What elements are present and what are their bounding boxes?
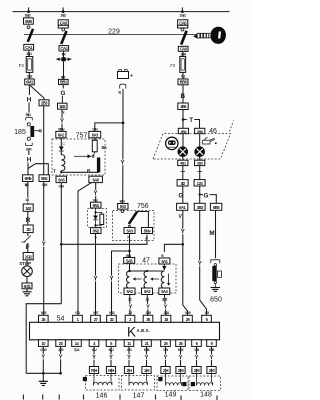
svg-text:J|18: J|18 — [163, 311, 169, 315]
connector box 12B lamp2 col — [194, 180, 205, 186]
svg-text:CA0: CA0 — [180, 47, 188, 52]
svg-text:Y: Y — [42, 242, 46, 248]
svg-text:T: T — [53, 169, 56, 175]
oil can icon — [203, 138, 217, 144]
connector box BB1 col B — [59, 79, 69, 84]
wire valve47 pin1 to K pin2 — [129, 295, 131, 316]
marker square sensor149 — [182, 382, 186, 386]
svg-text:5G|1: 5G|1 — [24, 284, 32, 289]
wire branch col A to connector 2B3 — [30, 86, 44, 101]
wire relay coil bottom to ground loop — [60, 183, 62, 304]
wire H to switch 185 — [28, 103, 30, 118]
wire 756 N to valve 47 — [129, 234, 131, 258]
svg-text:1G|2: 1G|2 — [179, 14, 185, 18]
stop switch — [22, 233, 31, 242]
hydraulic valve unit 47 outline — [119, 264, 177, 293]
warning lamp 2 — [194, 146, 205, 157]
connector box BB6 col F — [178, 79, 188, 85]
wire lamp1 col down — [182, 166, 184, 180]
svg-text:Y: Y — [181, 230, 185, 236]
svg-text:2|H: 2|H — [127, 368, 132, 373]
svg-text:T: T — [189, 118, 193, 124]
svg-text:Y: Y — [164, 304, 168, 310]
connector box sensor146 a — [89, 367, 98, 374]
connector box 1B6 col F — [178, 103, 188, 110]
svg-text:1B|2: 1B|2 — [25, 14, 31, 18]
node junction dot col B — [62, 10, 65, 13]
connector box sensor147 a — [124, 367, 133, 374]
wire col B G to 1B2 — [62, 85, 64, 89]
connector box 501 stop — [22, 277, 32, 289]
bracket top switch 185 — [26, 117, 33, 120]
instrument cluster 46 outline — [153, 134, 231, 160]
svg-text:Y: Y — [59, 354, 63, 360]
wire ground loop lower left — [26, 304, 61, 374]
wire M column down — [215, 210, 217, 258]
wire 756 return bus — [61, 235, 147, 245]
svg-text:7|14: 7|14 — [74, 348, 80, 352]
connector box 3B2 lamp1 col — [177, 180, 188, 186]
solenoid coil 2 valve47 — [144, 271, 147, 288]
diode D2 pack — [93, 208, 98, 228]
wire K pin11 to sensor147 — [128, 346, 130, 366]
svg-text:BB6: BB6 — [180, 80, 188, 85]
wire relay internal bus — [61, 171, 99, 173]
wire F segment — [27, 243, 29, 253]
diode D1 relay 757 — [59, 142, 66, 151]
node T junction — [182, 118, 194, 124]
wire H to box 6M5 — [27, 163, 29, 175]
svg-text:H: H — [27, 156, 32, 163]
contact circle col A — [27, 26, 30, 29]
splice tick lamp2 col — [198, 170, 202, 172]
wire col B to relay — [61, 109, 63, 131]
bracket bottom switch 185 — [26, 143, 33, 146]
connector box 5A2 valve47 bottom1 — [124, 288, 135, 295]
svg-text:1|4: 1|4 — [25, 198, 29, 202]
marker square sensor148 — [191, 382, 195, 386]
svg-text:12S: 12S — [197, 181, 204, 186]
connector box 261 stop — [23, 253, 33, 260]
svg-text:F2: F2 — [170, 63, 176, 68]
svg-text:V|5: V|5 — [204, 311, 209, 315]
node junction dot col A — [27, 10, 30, 13]
svg-text:A.B.S.: A.B.S. — [137, 328, 151, 333]
connector box 113 stop — [23, 225, 33, 233]
stop lamp — [22, 260, 33, 277]
svg-text:+: + — [130, 73, 134, 80]
svg-text:46: 46 — [209, 128, 217, 135]
wire col B through splice — [63, 51, 65, 79]
connector box 5Mv contact J — [142, 228, 153, 234]
K pin bottom 9 — [207, 340, 217, 352]
K pin bottom 26 — [176, 340, 186, 352]
svg-text:54: 54 — [57, 316, 65, 323]
wire col F B to box — [182, 85, 184, 103]
K pin top 5 — [202, 311, 212, 322]
K pin bottom 14 — [72, 340, 82, 352]
connector box sensor147 b — [142, 367, 151, 374]
marker square sensor147 — [158, 377, 162, 381]
connector box 6B5 M col — [210, 203, 221, 210]
wire 9B2 to K pin25 — [43, 182, 45, 316]
battery — [118, 70, 134, 80]
K pin bottom 4 — [89, 340, 99, 352]
switch blade col B — [61, 31, 66, 44]
wire lamp2 col down — [199, 166, 201, 180]
svg-text:Y: Y — [93, 191, 97, 197]
wire lamp2 feed — [199, 134, 201, 147]
connector box 6N1 diode pack top — [91, 202, 102, 208]
wire K pin20 to ground bus — [60, 346, 62, 373]
svg-text:Y: Y — [179, 355, 183, 361]
solenoid coil 3 valve47 — [161, 271, 164, 288]
relay U757 outline — [52, 139, 105, 175]
node ground bus dot2 — [59, 372, 62, 375]
svg-text:R|H: R|H — [91, 368, 97, 373]
svg-text:V|29: V|29 — [185, 311, 191, 315]
svg-text:J|2: J|2 — [128, 311, 132, 315]
connector double box col B — [58, 20, 68, 28]
svg-text:V|M: V|M — [42, 183, 48, 187]
wire lamp2 col to K pin5 — [200, 210, 207, 315]
svg-text:STOP: STOP — [19, 261, 31, 266]
wire junction to relay coil feed — [95, 123, 123, 131]
connector box 6A5 relay coil bottom — [56, 176, 67, 182]
wire relay contact to K pin1 — [78, 183, 92, 316]
wire diode pack to K pin27 — [95, 234, 97, 316]
wire branch to K pin32 — [112, 251, 130, 315]
wire 2B3 to 9B2 — [43, 106, 45, 175]
svg-text:CA4: CA4 — [60, 46, 68, 51]
node junction dot col F — [181, 10, 184, 13]
svg-text:2G|1: 2G|1 — [25, 254, 33, 259]
contact circle col F — [181, 28, 184, 31]
connector box 6A1 lamp1 col — [177, 203, 188, 210]
wire K pin5 to sensor146 — [110, 346, 112, 366]
switch 185 — [14, 123, 41, 141]
connector box 4B1 lamp1 bottom — [178, 157, 188, 166]
connector box 6A3 relay contact top — [89, 131, 101, 137]
diode pack unit outline — [88, 209, 107, 228]
connector box 5A3 valve47 bottom2 — [142, 288, 153, 295]
node G lamp2 col with junction — [199, 186, 209, 203]
wire top supply bus — [13, 7, 230, 11]
wire junction to switch 756 — [122, 123, 124, 204]
connector box 5A5 valve47 left top — [124, 258, 135, 264]
svg-text:16|2: 16|2 — [60, 14, 66, 18]
wire lamp1 col to K pin29 — [183, 210, 188, 315]
node battery junction — [122, 122, 125, 125]
connector box sensor148 a — [192, 367, 201, 374]
wire branch H to 9B2 — [28, 164, 48, 175]
K pin top 25 — [39, 311, 49, 322]
wire col F down to cluster — [182, 110, 184, 129]
K pin top 32 — [107, 311, 117, 322]
svg-text:Y: Y — [92, 355, 96, 361]
svg-text:229: 229 — [108, 28, 120, 35]
svg-text:Y: Y — [41, 354, 45, 360]
svg-text:757: 757 — [76, 132, 88, 139]
connector box CA4 col B — [59, 46, 69, 51]
svg-text:Y: Y — [60, 119, 64, 125]
wire K pin25b to sensor149 — [165, 346, 167, 366]
wheel sensor 149 — [157, 374, 188, 391]
svg-text:G|M: G|M — [26, 147, 32, 151]
svg-text:V|25: V|25 — [40, 311, 46, 315]
connector box 1B2 col B — [58, 103, 68, 109]
svg-text:G: G — [61, 90, 66, 97]
connector box 5V2 switch 756 — [118, 204, 128, 210]
svg-text:650: 650 — [210, 297, 222, 304]
wire H lower to connector — [28, 151, 30, 155]
wire battery to junction — [122, 89, 124, 123]
connector box sensor146 b — [106, 367, 115, 374]
svg-text:Y: Y — [195, 355, 199, 361]
node T relay — [53, 169, 63, 175]
svg-text:J|35: J|35 — [145, 311, 151, 315]
contact circle 756 — [121, 210, 124, 213]
svg-text:2|H: 2|H — [163, 368, 168, 373]
svg-text:Y: Y — [164, 355, 168, 361]
resistor R2 pack — [94, 211, 103, 226]
K pin bottom 21 — [142, 340, 152, 352]
node junction lamp1 to valve47 — [182, 243, 185, 246]
connector box 6A0 relay contact bottom — [89, 176, 103, 182]
connector box 9B2 — [39, 175, 49, 182]
K pin top 18 — [161, 311, 171, 322]
splice tick lamp1 col — [181, 170, 185, 172]
wire branch to valve 47 right pin — [164, 244, 182, 252]
marker square sensor146 — [83, 377, 87, 381]
connector box 2B2 lamp1 top — [178, 128, 188, 134]
wire R segment — [27, 211, 29, 225]
svg-text:V|32: V|32 — [109, 311, 115, 315]
wire 6M5 to stop chain — [27, 182, 29, 205]
svg-text:M: M — [209, 230, 214, 237]
coil L relay 757 — [61, 151, 65, 172]
svg-text:10|2: 10|2 — [27, 74, 33, 78]
ground main — [39, 373, 48, 385]
wheel sensor 146 — [86, 374, 120, 391]
switch blade col A — [28, 29, 33, 42]
wheel sensor 147 — [122, 374, 155, 391]
ignition key icon — [193, 26, 227, 45]
fuse F3 — [19, 57, 33, 73]
connector box sensor149 b — [176, 367, 185, 374]
svg-text:Y: Y — [109, 355, 113, 361]
node junction 756N — [128, 250, 131, 253]
wire K pin6 to sensor148 — [196, 346, 198, 366]
svg-text:146: 146 — [96, 393, 108, 400]
svg-text:756: 756 — [137, 203, 149, 210]
K pin top 29 — [183, 311, 193, 322]
contact circle col B — [62, 28, 65, 31]
svg-text:Y: Y — [120, 161, 124, 167]
K pin top 1 — [73, 311, 83, 322]
ground pump 650 — [211, 288, 220, 292]
K pin top 2 — [125, 311, 135, 322]
wire K pin21 to sensor147 — [146, 346, 148, 366]
switch 756 outline — [113, 211, 155, 241]
wire ground bus bottom — [26, 372, 60, 374]
svg-text:47: 47 — [142, 258, 150, 265]
connector box 3B3 lamp2 col — [194, 203, 205, 210]
svg-text:K: K — [127, 324, 136, 339]
solenoid coil 1 valve47 — [126, 271, 129, 288]
splice symbol col B — [56, 57, 71, 61]
svg-text:Y: Y — [127, 355, 131, 361]
arrow left coil2-3 — [150, 277, 159, 280]
resistor 8A relay 757 — [92, 138, 107, 152]
arrow left coil1-2 — [133, 277, 142, 280]
connector double box col F — [178, 20, 188, 28]
wire relay coil branch — [60, 138, 62, 147]
node ground bus dot1 — [42, 372, 45, 375]
K pin bottom 25b — [161, 340, 171, 352]
battery terminal bracket — [120, 84, 126, 88]
wire K pin9 to sensor148 — [211, 346, 213, 366]
connector box 5A3 contact N — [124, 228, 135, 234]
connector box 2B6 lamp2 top — [195, 128, 205, 134]
wire col A to node H — [28, 85, 30, 95]
switch blade ignition col F — [181, 31, 186, 45]
connector box sensor149 a — [161, 367, 170, 374]
svg-text:N|H: N|H — [108, 368, 114, 373]
wire K pin10 to ground bus — [42, 346, 44, 373]
K pin bottom 5 — [106, 340, 116, 352]
connector box 5A4 valve47 bottom3 — [159, 288, 170, 295]
svg-text:Y: Y — [146, 304, 150, 310]
svg-text:Y: Y — [109, 277, 113, 283]
connector box 2B3 — [39, 100, 49, 106]
K pin top 35 — [143, 311, 153, 322]
wire lamp1 col G segment — [182, 186, 184, 203]
svg-text:G: G — [204, 193, 209, 200]
warning lamp 1 — [178, 146, 189, 157]
connector box 6M1 col A — [25, 79, 35, 85]
connector box 6A2 relay coil top — [56, 131, 66, 137]
connector box 2B3 lamp2 bottom — [195, 157, 205, 166]
relay 757 contact blade — [97, 158, 100, 173]
wire valve47 top bus — [128, 263, 166, 272]
connector box CA0 col F mid — [178, 46, 188, 51]
node junction 756 return — [60, 243, 63, 246]
svg-text:Y: Y — [129, 304, 133, 310]
ground stop lamp — [23, 289, 32, 296]
wire 229 ignition feed line — [24, 33, 212, 35]
svg-text:10|4: 10|4 — [26, 52, 32, 56]
svg-text:1|H: 1|H — [144, 368, 149, 373]
pump 650 bracket — [211, 260, 220, 263]
svg-text:Y: Y — [198, 262, 202, 268]
svg-text:147: 147 — [133, 393, 145, 400]
connector box CA col A — [24, 18, 34, 24]
connector box 6N2 diode pack bottom — [91, 228, 102, 234]
svg-text:Y: Y — [145, 355, 149, 361]
connector box sensor148 b — [207, 367, 216, 374]
svg-text:CA0: CA0 — [60, 20, 68, 25]
wire G branch to M column — [201, 194, 203, 196]
svg-text:149: 149 — [165, 392, 177, 399]
wire G branch corner — [210, 195, 217, 204]
wire T branch to lamp2 part2 — [194, 120, 199, 129]
svg-text:F3: F3 — [19, 63, 25, 68]
svg-text:Y: Y — [93, 277, 97, 283]
svg-text:C|1: C|1 — [181, 75, 186, 79]
connector box 6M5 — [23, 175, 33, 182]
connector box 5A1 valve47 right top — [159, 258, 170, 264]
K pin bottom 20 — [56, 340, 66, 352]
connector box 162 stop — [23, 204, 33, 211]
K pin bottom 6 — [192, 340, 202, 352]
wire relay contact to diode pack — [95, 183, 97, 203]
wire lamp1 feed — [182, 134, 184, 147]
svg-text:CA0: CA0 — [179, 20, 187, 25]
K pin top 27 — [91, 311, 101, 322]
relay 757 contact arm — [74, 152, 95, 158]
svg-text:148: 148 — [200, 392, 212, 399]
switch blade 756 — [129, 212, 137, 225]
K pin bottom 10 — [39, 340, 49, 352]
connector box CA1 col A — [24, 44, 34, 50]
svg-text:CA1: CA1 — [25, 45, 33, 50]
pump 650 element — [212, 264, 221, 288]
ABS warning symbol circle — [166, 137, 178, 149]
wire T branch to lamp2 — [183, 119, 187, 121]
K pin bottom 11 — [124, 340, 134, 352]
wire K pin26 to sensor149 — [180, 346, 182, 366]
svg-text:185: 185 — [14, 129, 26, 136]
svg-text:BB1: BB1 — [60, 80, 68, 85]
wheel sensor 148 — [189, 374, 221, 391]
wire valve47 pin2 to K pin35 — [146, 295, 149, 316]
fuse F2 — [170, 57, 185, 73]
svg-text:G|1: G|1 — [75, 311, 80, 315]
svg-text:Y: Y — [210, 355, 214, 361]
wire K pin4 to sensor146 — [93, 346, 95, 366]
ECU K ABS box — [30, 322, 220, 340]
page tick marks bottom — [23, 395, 217, 400]
wire valve47 pin3 to K pin18 — [165, 295, 167, 316]
svg-text:V|27: V|27 — [93, 311, 99, 315]
arrow down coil3 — [167, 274, 170, 286]
svg-text:V|Mv: V|Mv — [58, 127, 65, 131]
